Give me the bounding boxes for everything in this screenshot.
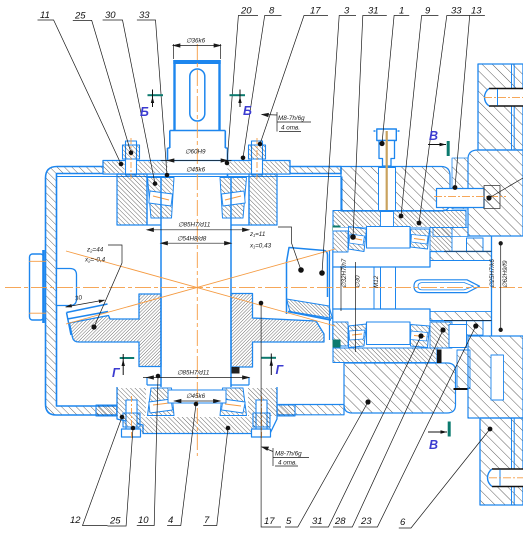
leader dots [91, 141, 492, 432]
svg-text:9: 9 [425, 6, 431, 17]
keyway slot top shaft [190, 69, 205, 121]
svg-text:33: 33 [451, 6, 462, 17]
callout numbers top [40, 6, 482, 22]
bottom cap stud centerlines [131, 396, 133, 440]
housing foot mass bottom right [344, 363, 456, 413]
central bore walls [160, 176, 162, 416]
dim 85H7 top [147, 228, 249, 231]
shaft sleeve wall bottom [430, 312, 492, 321]
leader 17 top [260, 16, 328, 145]
right flange F1 top [478, 64, 523, 150]
M8 note bottom frame [273, 448, 309, 466]
svg-text:23: 23 [360, 516, 372, 527]
leader 5 [285, 402, 368, 527]
svg-text:∅60H9: ∅60H9 [185, 149, 206, 156]
svg-text:z₂=44: z₂=44 [86, 247, 104, 254]
horizontal axis center line [5, 286, 523, 288]
cartridge right wall below stud [433, 228, 468, 237]
svg-text:В: В [429, 129, 438, 143]
leader 11 [38, 20, 122, 164]
coupling key block bottom [467, 321, 484, 336]
svg-text:∅36k6: ∅36k6 [186, 38, 206, 45]
witness lines pinion dims [341, 262, 356, 352]
top cap left stud [123, 141, 140, 175]
bearing spacer top [367, 227, 411, 249]
svg-text:13: 13 [471, 6, 482, 17]
flange joint line top [512, 64, 515, 150]
pinion head outline [287, 248, 328, 315]
section mark V-top (В) [428, 129, 448, 156]
svg-text:8: 8 [269, 6, 275, 17]
leader 23 [358, 326, 475, 527]
section mark G-left (Г) [112, 354, 134, 380]
svg-text:7: 7 [204, 515, 210, 526]
svg-text:Б: Б [140, 105, 149, 119]
leader 33 top-left [137, 20, 167, 175]
leader 17 bottom [261, 303, 281, 527]
svg-text:10: 10 [138, 515, 149, 526]
leader from right edge to stud nut [489, 178, 523, 198]
right flange F5 bottom [480, 418, 523, 505]
leader 30 [103, 20, 155, 184]
svg-text:5: 5 [286, 516, 292, 527]
cartridge top bearing bore [333, 228, 452, 253]
bottom cap wings [96, 405, 117, 416]
M8 note top frame [277, 112, 311, 132]
svg-text:x₁=0,43: x₁=0,43 [249, 243, 272, 250]
vent plug body [374, 129, 400, 166]
svg-text:x₂=-0,4: x₂=-0,4 [84, 257, 106, 264]
dim 36k6 [173, 44, 221, 59]
svg-text:17: 17 [310, 6, 321, 17]
vent plug slot in mass [379, 168, 396, 212]
bottom cap right stud [252, 400, 271, 437]
coupling key block top [467, 238, 484, 252]
svg-text:4 отв.: 4 отв. [281, 125, 300, 132]
cartridge bottom flange band [333, 348, 437, 363]
leader 10 [137, 376, 158, 526]
leader 3 [322, 16, 356, 274]
flange top bolt [485, 89, 523, 107]
section mark B-right (Б) [230, 90, 253, 119]
pitch cone line B [66, 251, 335, 326]
svg-text:M8-7h/6g: M8-7h/6g [278, 115, 305, 122]
leader 4 [167, 404, 196, 526]
top bolt center [484, 97, 523, 99]
bottom cap hatch band [122, 417, 270, 433]
bearing spacer bottom [367, 322, 411, 345]
housing left wall [46, 167, 342, 416]
top cap stud centerlines [130, 138, 132, 179]
bottom cap left stud [122, 400, 141, 437]
dim 54H8 [161, 242, 231, 245]
black gap bar [437, 350, 442, 364]
top right tapered bearing [220, 178, 247, 219]
right flange F4 [468, 336, 523, 418]
svg-text:∅85H7/d11: ∅85H7/d11 [178, 222, 210, 229]
dim 85H7 bottom [143, 376, 249, 379]
bottom right tapered bearing [220, 388, 247, 416]
section mark V-bottom (В) [428, 422, 449, 453]
top bearing boss walls [117, 174, 147, 225]
coupling vertical dim line [499, 242, 503, 332]
leader 6 [399, 429, 490, 528]
leader 33 top-right [419, 16, 470, 224]
pinion bottom-right bearing [411, 325, 430, 348]
bevel wheel left half [70, 294, 162, 367]
bottom cap side hatch left [117, 388, 146, 416]
leader 9 [401, 16, 438, 217]
top bearing cap plate [103, 161, 290, 175]
callout numbers bottom [70, 515, 406, 528]
leader 1 [382, 16, 409, 144]
leader 13 [455, 16, 485, 188]
svg-text:∅45k6: ∅45k6 [186, 393, 206, 400]
cavity inner right wall [341, 177, 343, 211]
pinion top-right bearing [411, 229, 430, 249]
bearing cover right bottom [449, 325, 467, 348]
leader 8 [243, 16, 282, 158]
svg-text:31: 31 [368, 6, 379, 17]
wheel tooth cap lines left [67, 304, 109, 335]
svg-text:∅25H7/k6: ∅25H7/k6 [489, 259, 496, 288]
shaft step lines [374, 267, 396, 309]
pinion shaft outline [333, 236, 492, 336]
svg-text:4 отв.: 4 отв. [278, 460, 297, 467]
svg-text:6: 6 [400, 517, 406, 528]
svg-text:31: 31 [312, 516, 323, 527]
flange bottom slot [491, 355, 504, 400]
dimension texts [74, 38, 509, 467]
svg-text:4: 4 [168, 515, 173, 526]
pinion teeth section [287, 299, 333, 319]
dim 30 tooth width [66, 300, 105, 307]
svg-text:11: 11 [40, 10, 50, 21]
flange lower-left piece [457, 350, 470, 389]
cartridge top flange band [333, 211, 466, 228]
svg-text:∅30: ∅30 [355, 275, 362, 288]
leader 7 [203, 428, 228, 526]
bevel wheel right half [231, 294, 324, 368]
flange bottom bolt [488, 469, 523, 487]
svg-text:В: В [429, 438, 438, 452]
svg-text:30: 30 [105, 10, 116, 21]
svg-text:28: 28 [334, 516, 346, 527]
svg-text:Б: Б [243, 104, 252, 118]
shaft step 36->60 [168, 131, 228, 177]
bottom cap side hatch right [248, 388, 277, 416]
leader 31 bottom [310, 336, 421, 527]
top-right housing mass [341, 167, 450, 212]
section mark G-right (Г) [262, 354, 285, 378]
leader 31 top [353, 16, 387, 238]
seal ring bottom [333, 340, 341, 349]
dim 60H9 line [161, 159, 232, 162]
bottom bore closure [168, 390, 226, 403]
svg-text:Г: Г [112, 366, 121, 380]
bottom bolt center [489, 477, 523, 479]
witness lines coupling dims [444, 251, 492, 320]
svg-text:3: 3 [344, 6, 350, 17]
left boss hole center lines [29, 260, 46, 262]
svg-text:∅54H8/d8: ∅54H8/d8 [177, 236, 207, 243]
vertical axis center line [196, 44, 198, 456]
z2 note bracket [94, 245, 122, 327]
housing top wall inner edge [57, 176, 342, 178]
z1 note bracket [278, 227, 301, 270]
left boss face plate [42, 250, 45, 323]
leader 20 [227, 16, 258, 164]
shaft sleeve wall top [430, 252, 492, 261]
bottom left tapered bearing [148, 388, 175, 416]
housing bottom wall inner edge [57, 405, 118, 407]
leader 12 [83, 417, 123, 526]
bottom cap body [117, 387, 277, 434]
cartridge front face [330, 250, 333, 340]
svg-text:z₁=11: z₁=11 [249, 231, 265, 238]
vertical shaft top section [173, 60, 220, 131]
leader 28 [333, 330, 443, 527]
stem slot through flange band [381, 212, 394, 227]
cartridge right wall above stud [452, 158, 468, 209]
svg-text:20: 20 [240, 6, 252, 17]
cartridge bottom bearing bore [333, 322, 452, 348]
svg-text:M12: M12 [373, 275, 380, 288]
svg-text:25: 25 [109, 516, 121, 527]
stud horizontal [437, 186, 501, 209]
dim 45k6 bottom [175, 399, 221, 402]
seal ring top [333, 226, 341, 234]
inner wall bump [57, 269, 77, 306]
top boss neck lines [147, 176, 249, 225]
housing bottom wall right segment [277, 405, 344, 415]
dipstick stem [386, 131, 388, 228]
bottom boss neck lines [147, 377, 249, 385]
cap plate hatch segments [104, 162, 125, 174]
hub bottom black corner [232, 367, 240, 374]
svg-text:33: 33 [139, 10, 150, 21]
top cap right stud [249, 141, 266, 175]
pinion bottom-left bearing [349, 324, 367, 348]
left boss flange on wall [30, 254, 44, 320]
right flange F2 [468, 150, 523, 236]
svg-text:25: 25 [74, 11, 86, 22]
leader 25 bottom [108, 428, 134, 526]
pitch cone line A [66, 249, 335, 324]
pinion tooth cap line [288, 312, 331, 321]
pinion top-left bearing [349, 227, 367, 252]
svg-text:∅62H9/f9: ∅62H9/f9 [502, 260, 509, 288]
svg-text:Г: Г [276, 363, 285, 377]
svg-text:12: 12 [70, 515, 81, 526]
svg-text:17: 17 [264, 516, 275, 527]
stud center dash-dot [434, 195, 506, 197]
section mark B-left (Б) [140, 90, 163, 120]
svg-text:∅45k6: ∅45k6 [186, 167, 206, 174]
shaft keyway slot [414, 280, 480, 293]
flange joint line bottom [512, 418, 515, 505]
top left tapered bearing [148, 178, 175, 219]
leader 25 [73, 20, 131, 152]
svg-text:1: 1 [399, 6, 404, 17]
svg-text:M8-7h/6g: M8-7h/6g [275, 451, 302, 458]
svg-text:∅32H7/h7: ∅32H7/h7 [341, 258, 348, 288]
svg-text:∅85H7/d11: ∅85H7/d11 [177, 370, 209, 377]
